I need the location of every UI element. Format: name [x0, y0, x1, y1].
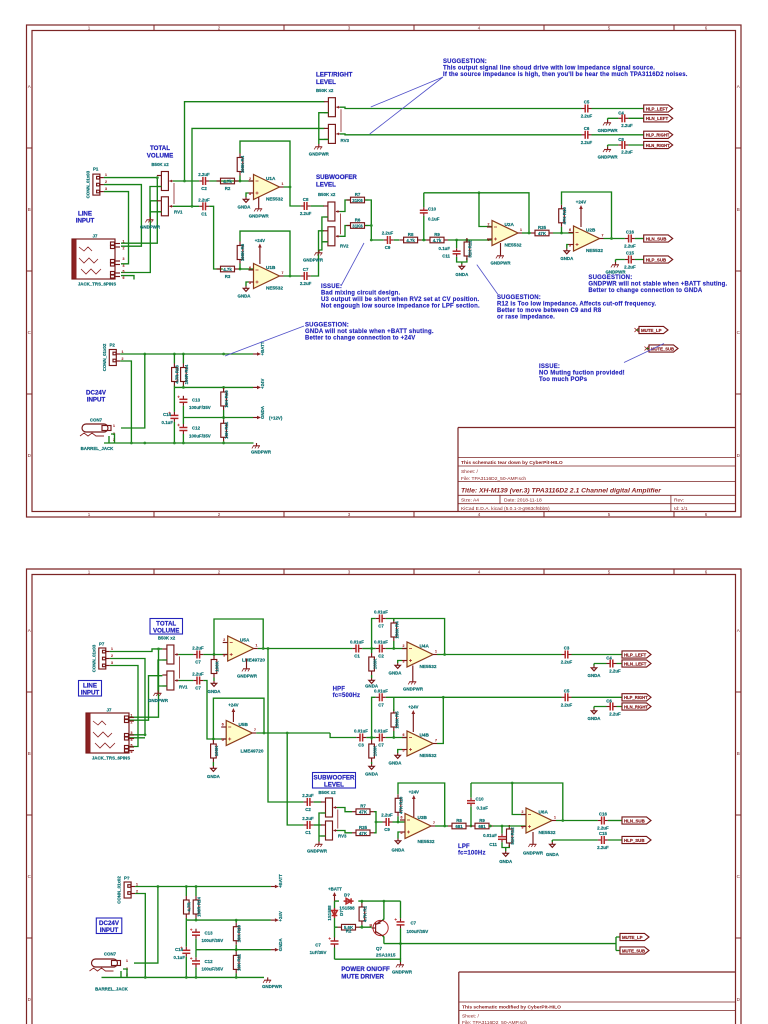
svg-text:2SA1015: 2SA1015	[376, 953, 396, 958]
svg-text:0.01uF: 0.01uF	[354, 729, 368, 734]
svg-text:RV3: RV3	[341, 138, 350, 143]
svg-text:SUGGESTION:: SUGGESTION:	[443, 59, 487, 65]
svg-text:2.2uF: 2.2uF	[621, 150, 633, 155]
capacitor C1h	[352, 645, 362, 653]
svg-text:2.2uF: 2.2uF	[581, 140, 593, 145]
capacitor C11 shunt	[457, 240, 467, 262]
svg-text:10K R10: 10K R10	[224, 390, 229, 408]
capacitor C9s	[383, 818, 393, 826]
sheet2 inner border frame	[32, 575, 736, 1024]
capacitor C8b	[618, 141, 628, 149]
U1B feedback loop wire	[240, 231, 290, 276]
hierarchical label MUTE_LP	[620, 933, 649, 940]
svg-text:LEFT/RIGHT: LEFT/RIGHT	[316, 72, 353, 79]
op-amp U4B	[402, 731, 437, 756]
svg-text:5.6K: 5.6K	[344, 925, 354, 930]
wire P1.3 down	[104, 192, 129, 264]
wire RV3 gang2 wiper to R35	[337, 831, 352, 833]
svg-text:1S1588: 1S1588	[339, 906, 355, 911]
wire jack tip up to P1.1 net	[121, 178, 157, 244]
svg-text:100R R14: 100R R14	[197, 897, 202, 917]
svg-text:GNDA will not stable when +BA: GNDA will not stable when +BATT shuting.	[305, 329, 434, 335]
svg-text:3: 3	[105, 187, 107, 191]
svg-text:Not engough low source impedan: Not engough low source impedance for LPF…	[321, 304, 480, 310]
svg-text:150K R4: 150K R4	[395, 621, 400, 639]
resistor R7	[347, 197, 369, 203]
svg-text:47K R10: 47K R10	[562, 207, 567, 225]
shunt row C4	[594, 664, 622, 666]
potentiometer RV3 gang1	[321, 798, 337, 817]
CON7b ground pins	[121, 969, 127, 977]
svg-text:2.2uF: 2.2uF	[561, 660, 573, 665]
svg-text:2.2uF: 2.2uF	[382, 231, 394, 236]
svg-text:A: A	[28, 84, 31, 89]
svg-text:LME49720: LME49720	[242, 658, 265, 663]
svg-text:RV1: RV1	[174, 210, 183, 215]
capacitor C3r feedback	[376, 693, 386, 701]
svg-text:5: 5	[131, 743, 133, 747]
svg-text:2.2uF: 2.2uF	[198, 197, 210, 202]
svg-text:P7: P7	[99, 642, 105, 647]
svg-text:47K: 47K	[359, 810, 368, 815]
svg-text:Id: 1/1: Id: 1/1	[674, 506, 688, 512]
annotation pointer	[225, 326, 304, 356]
annotation pointer lines	[370, 77, 443, 134]
svg-text:47K R10: 47K R10	[399, 796, 404, 814]
svg-text:C7: C7	[315, 943, 321, 948]
svg-text:R7: R7	[360, 804, 366, 809]
svg-text:681: 681	[478, 824, 486, 829]
wire P1.1 to RV1 gang1	[104, 177, 157, 179]
svg-text:C13: C13	[205, 930, 214, 935]
svg-text:TOTAL: TOTAL	[156, 621, 176, 628]
svg-text:C7: C7	[195, 686, 201, 691]
U1B output wire	[284, 275, 301, 277]
svg-text:P2: P2	[110, 343, 116, 348]
svg-text:GNDA: GNDA	[278, 937, 283, 951]
resistor R1r shunt	[369, 740, 375, 762]
wire RV1 gang2 input from jack	[121, 201, 157, 273]
svg-text:NE5532: NE5532	[266, 197, 283, 202]
svg-text:0.01uF: 0.01uF	[374, 729, 388, 734]
op-amp U2A	[487, 221, 522, 246]
wire rail to U2A inverting input	[479, 193, 492, 227]
U3B output wire	[435, 825, 448, 827]
svg-text:SUGGESTION:: SUGGESTION:	[305, 323, 349, 329]
potentiometer RV1 gang1	[157, 172, 173, 191]
svg-text:C14: C14	[163, 412, 172, 417]
svg-text:4.7k: 4.7k	[433, 238, 442, 243]
svg-text:HLP_LEFT: HLP_LEFT	[624, 652, 647, 657]
svg-text:4.7k: 4.7k	[223, 179, 232, 184]
wire CON7 pin1 up to +BATT	[134, 887, 158, 964]
op-amp U4A	[402, 642, 437, 667]
capacitor C8	[301, 202, 311, 210]
svg-text:2.2uF: 2.2uF	[192, 646, 204, 651]
GNDA rail wire	[196, 949, 271, 951]
svg-text:KiCad E.D.A. kicad (5.0.1-3-g: KiCad E.D.A. kicad (5.0.1-3-g963cf6bb5)	[461, 506, 550, 512]
annotation pointer	[341, 243, 364, 286]
svg-text:GNDA: GNDA	[392, 848, 406, 853]
svg-text:47K: 47K	[359, 831, 368, 836]
shunt row C4	[608, 118, 644, 120]
svg-text:INPUT: INPUT	[81, 690, 100, 697]
svg-text:This output signal line shoud: This output signal line shoud drive with…	[443, 66, 655, 72]
svg-text:0.1uF: 0.1uF	[428, 217, 440, 222]
resistor R1m	[359, 903, 365, 925]
wire RV2 gang2 wiper to R6	[339, 226, 350, 237]
svg-text:GNDA: GNDA	[365, 772, 379, 777]
U5A output long wire to HPF	[258, 648, 353, 650]
svg-text:GNDPWR will not stable when +: GNDPWR will not stable when +BATT shutin…	[588, 282, 727, 288]
svg-text:0.1uF: 0.1uF	[162, 420, 174, 425]
svg-text:Title: XH-M139 (ver.3) TPA3116: Title: XH-M139 (ver.3) TPA3116D2 2.1 Cha…	[461, 488, 661, 495]
capacitor C1r	[356, 734, 366, 742]
svg-text:MUTE DRIVER: MUTE DRIVER	[341, 974, 384, 981]
sheet1 outer border frame	[27, 25, 742, 517]
svg-text:2.2uF: 2.2uF	[192, 672, 204, 677]
svg-text:4: 4	[123, 264, 125, 268]
svg-text:Too much POPs: Too much POPs	[539, 377, 588, 383]
sheet2 border row letters	[28, 628, 741, 1002]
ground GNDPWR under RV1	[145, 217, 153, 222]
svg-text:6: 6	[403, 733, 405, 737]
capacitor C7m 100uF	[400, 901, 402, 959]
GNDPWR rail wire	[104, 442, 254, 444]
U2B output wire	[604, 238, 625, 240]
hierarchical label HLN_LEFT	[644, 115, 673, 122]
ground GNDPWR under C4	[603, 120, 611, 125]
ground GNDPWR under C8b	[603, 147, 611, 152]
svg-text:2.2uF: 2.2uF	[300, 211, 312, 216]
svg-text:2: 2	[123, 247, 125, 251]
svg-text:This schematic modified by Cyb: This schematic modified by CyberPit-HILO	[462, 1005, 561, 1011]
svg-text:SUGGESTION:: SUGGESTION:	[588, 275, 632, 281]
power flag +24V	[253, 386, 261, 390]
svg-text:Bad mixing circuit design.: Bad mixing circuit design.	[321, 291, 401, 297]
power flag +BATT	[253, 352, 261, 356]
U4A feedback rail	[372, 619, 445, 655]
transistor Q7 2SA1015	[373, 920, 388, 935]
RV3 gang link	[337, 810, 339, 829]
RV1 ground wire	[150, 187, 161, 218]
svg-text:C11: C11	[489, 842, 497, 847]
resistor R10b divider	[233, 923, 239, 945]
bottom wire to GNDPWR	[335, 959, 401, 962]
svg-text:0.01uF: 0.01uF	[374, 640, 388, 645]
svg-text:U2A: U2A	[505, 222, 515, 227]
capacitor C13	[177, 396, 187, 406]
svg-text:SUBWOOFER: SUBWOOFER	[316, 174, 357, 181]
svg-text:2: 2	[111, 654, 113, 658]
hierarchical label HLN_LEFT	[622, 660, 651, 667]
svg-text:4.7k: 4.7k	[223, 267, 232, 272]
hierarchical label HLP_RIGHT	[644, 131, 673, 138]
svg-text:LINE: LINE	[78, 211, 92, 218]
ground GNDPWR rail end	[252, 443, 260, 448]
U2A power pin to GNDPWR	[500, 243, 502, 253]
capacitor C12b	[190, 957, 200, 967]
svg-text:C8: C8	[618, 137, 624, 142]
svg-text:5: 5	[569, 244, 571, 248]
svg-text:0.01uF: 0.01uF	[483, 833, 497, 838]
svg-text:R35: R35	[538, 225, 547, 230]
U5B output long wire	[256, 733, 330, 825]
wire RV1 gang2 wiper to C7b	[178, 681, 226, 740]
svg-text:2.2uF: 2.2uF	[381, 813, 393, 818]
svg-text:0.1uF: 0.1uF	[174, 955, 186, 960]
svg-text:2.2uF: 2.2uF	[621, 123, 633, 128]
ground GNDPWR under RV3	[314, 842, 322, 847]
svg-text:R12 is Too low impedance. Affe: R12 is Too low impedance. Affects cut-of…	[497, 302, 656, 308]
potentiometer RV1 gang1	[162, 645, 178, 664]
svg-text:4: 4	[131, 738, 133, 742]
svg-text:File: TPA3116D2_50-AMP.sch: File: TPA3116D2_50-AMP.sch	[461, 476, 526, 482]
svg-text:LEVEL: LEVEL	[316, 79, 336, 86]
svg-text:R6: R6	[355, 218, 361, 223]
svg-text:3: 3	[223, 654, 225, 658]
svg-text:HLP_RIGHT: HLP_RIGHT	[624, 695, 648, 700]
capacitor C7a	[193, 651, 203, 659]
svg-text:C12: C12	[192, 426, 201, 431]
svg-text:MUTE_LP: MUTE_LP	[641, 328, 662, 333]
wire P1.2 down	[104, 185, 141, 247]
sheet1 border column numbers	[88, 26, 708, 518]
resistor R9s	[471, 823, 493, 829]
power flag GNDA	[271, 948, 279, 952]
sheet1 border ticks top/bottom	[154, 25, 674, 517]
svg-text:U3 output will be short when R: U3 output will be short when RV2 set at …	[321, 297, 479, 303]
svg-text:R3: R3	[225, 274, 231, 279]
svg-text:3: 3	[111, 661, 113, 665]
label LINE INPUT boxed	[79, 681, 102, 697]
svg-text:10K R10: 10K R10	[237, 924, 242, 942]
svg-text:+24V: +24V	[278, 911, 283, 921]
svg-text:4.7R: 4.7R	[187, 902, 192, 912]
capacitor C11s shunt	[502, 826, 509, 848]
op-amp U1A	[249, 175, 284, 200]
svg-text:2.2uF: 2.2uF	[609, 669, 621, 674]
capacitor C10 feedback	[423, 193, 425, 240]
capacitor C13b	[190, 929, 200, 939]
svg-text:B: B	[28, 207, 31, 212]
svg-text:GNDA: GNDA	[499, 859, 513, 864]
svg-text:2.2uF: 2.2uF	[302, 793, 314, 798]
svg-text:Rev:: Rev:	[674, 498, 684, 504]
svg-text:+24V: +24V	[255, 238, 265, 243]
svg-text:6: 6	[123, 276, 125, 280]
resistor R13	[172, 364, 178, 386]
svg-text:U3B: U3B	[418, 815, 428, 820]
svg-text:HLN_LEFT: HLN_LEFT	[624, 661, 647, 666]
svg-text:R8: R8	[408, 232, 414, 237]
svg-text:C14: C14	[175, 947, 184, 952]
capacitor C6	[607, 703, 617, 711]
svg-text:51K R12: 51K R12	[468, 240, 473, 258]
ground GNDA under C4	[591, 666, 597, 671]
resistor R3	[217, 266, 239, 272]
svg-text:C7: C7	[378, 702, 384, 707]
svg-text:R9: R9	[434, 232, 440, 237]
+24V rail wire	[174, 386, 253, 388]
capacitor C14	[168, 412, 178, 422]
svg-text:6: 6	[222, 723, 224, 727]
svg-text:GNDPWR: GNDPWR	[598, 155, 619, 160]
GNDA (+12V) rail wire	[183, 417, 253, 419]
svg-text:C7: C7	[411, 921, 417, 926]
+BATT rail wire	[120, 353, 253, 355]
U1A output wire down to C8	[284, 187, 301, 206]
svg-text:1: 1	[111, 647, 113, 651]
svg-text:1: 1	[122, 350, 124, 354]
svg-text:Date: 2018-11-18: Date: 2018-11-18	[504, 498, 542, 504]
capacitor C4	[618, 114, 628, 122]
mute output long wire	[384, 937, 620, 951]
svg-text:6: 6	[249, 266, 251, 270]
ground GNDA under R3b	[211, 766, 217, 771]
ground GNDA under R1h	[369, 678, 375, 683]
ground GNDA under C6	[591, 709, 597, 714]
op-amp U3B	[400, 814, 435, 839]
svg-text:100K: 100K	[372, 658, 377, 669]
svg-text:GNDPWR: GNDPWR	[403, 687, 424, 692]
no-connect x MUTE_SUB	[645, 347, 649, 351]
wire rail to U6A inverting input	[512, 783, 526, 815]
svg-text:GNDA: GNDA	[238, 294, 252, 299]
power flag +BATT	[271, 885, 279, 889]
svg-text:MUTE_SUB: MUTE_SUB	[622, 948, 645, 953]
wire P2b.2 to ground rail	[135, 894, 145, 978]
resistor R8s	[448, 823, 470, 829]
svg-text:A: A	[737, 628, 740, 633]
capacitor C16s	[598, 817, 608, 825]
svg-text:4.7R R13: 4.7R R13	[175, 365, 180, 384]
resistor R4 feedback U1A	[237, 154, 243, 176]
svg-text:Better to move between C9 and: Better to move between C9 and R8	[497, 308, 602, 314]
svg-text:U4B: U4B	[420, 733, 430, 738]
svg-text:GNDPWR: GNDPWR	[598, 128, 619, 133]
svg-text:D?: D?	[344, 893, 350, 898]
svg-text:CON7: CON7	[90, 418, 103, 423]
power flag GNDA	[253, 416, 261, 420]
capacitor C2s	[304, 798, 314, 806]
capacitor C3h feedback	[376, 615, 386, 623]
U4B feedback rail	[372, 697, 562, 737]
svg-text:C1: C1	[305, 830, 311, 835]
svg-text:BARREL_JACK: BARREL_JACK	[81, 446, 115, 451]
svg-text:R2: R2	[225, 186, 231, 191]
svg-text:B50K x2: B50K x2	[316, 88, 334, 93]
svg-text:U1B: U1B	[266, 265, 276, 270]
capacitor C15s	[598, 836, 608, 844]
svg-text:+BATT: +BATT	[278, 874, 283, 888]
RV2 ground wires	[319, 217, 328, 250]
svg-text:RV1: RV1	[179, 685, 188, 690]
U4A + input to GNDA	[398, 661, 402, 664]
svg-text:POWER ON/OFF: POWER ON/OFF	[341, 966, 390, 973]
svg-text:GNDA: GNDA	[260, 405, 265, 419]
U2A output wire	[522, 232, 531, 234]
shunt row C15	[616, 260, 644, 263]
svg-text:7: 7	[435, 739, 437, 743]
hierarchical label HLP_RIGHT	[622, 694, 651, 701]
svg-text:C8: C8	[303, 197, 309, 202]
svg-text:ISSUE:: ISSUE:	[539, 364, 560, 370]
svg-text:100uF/35V: 100uF/35V	[407, 929, 429, 934]
wire row2 RV1 gang2 wiper to C1 and down	[173, 206, 223, 269]
U5A power pin to GNDPWR	[246, 659, 248, 667]
resistor R35s	[352, 830, 374, 836]
U2A feedback rail	[424, 193, 529, 233]
svg-text:+24V: +24V	[228, 703, 238, 708]
diode D7 vertical	[332, 908, 338, 918]
svg-text:HLN_SUB: HLN_SUB	[624, 818, 645, 823]
capacitor C2r	[376, 734, 386, 742]
svg-text:5: 5	[401, 831, 403, 835]
svg-text:R7: R7	[355, 192, 361, 197]
svg-text:HLP_RIGHT: HLP_RIGHT	[646, 133, 670, 138]
svg-text:GNDA: GNDA	[455, 272, 469, 277]
capacitor C16	[625, 235, 635, 243]
svg-text:HLN_SUB: HLN_SUB	[646, 236, 667, 241]
ground GNDPWR under C15	[611, 262, 619, 267]
svg-text:B: B	[28, 751, 31, 756]
svg-text:C5: C5	[584, 100, 590, 105]
annotation SUGGESTION GNDA	[305, 323, 434, 342]
svg-text:MUTE_SUB: MUTE_SUB	[651, 346, 674, 351]
svg-text:J7: J7	[93, 234, 98, 239]
svg-text:Sheet: /: Sheet: /	[462, 1014, 479, 1020]
RV3 gang link	[340, 109, 342, 132]
svg-text:NE5532: NE5532	[420, 664, 437, 669]
svg-text:2.2uF: 2.2uF	[198, 172, 210, 177]
RV1 gang link	[179, 657, 181, 679]
wire C7 to RV2 gang2	[311, 231, 324, 276]
svg-text:2: 2	[136, 889, 138, 893]
svg-text:2.2uF: 2.2uF	[624, 265, 636, 270]
svg-text:1: 1	[126, 959, 128, 963]
wire RV3 gang2 wiper long to C6	[340, 133, 582, 136]
svg-text:U2B: U2B	[586, 228, 596, 233]
RV3 ground wires	[319, 113, 329, 144]
potentiometer RV2 gang1	[323, 202, 339, 221]
hierarchical label MUTE_SUB	[620, 947, 649, 954]
wire RV3 gang1 wiper to R7	[337, 808, 352, 812]
svg-text:2.2uF: 2.2uF	[581, 114, 593, 119]
svg-text:Better to change connection to: Better to change connection to +24V	[305, 336, 416, 342]
svg-text:GNDA: GNDA	[560, 256, 574, 261]
wires to left/right level pots	[185, 102, 325, 181]
svg-text:GNDPWR: GNDPWR	[392, 970, 413, 975]
svg-text:0.1uF: 0.1uF	[439, 246, 451, 251]
svg-text:+24V: +24V	[409, 790, 419, 795]
ground GNDA under C11s	[505, 848, 507, 852]
svg-text:C5: C5	[564, 688, 570, 693]
resistor R7s	[352, 809, 374, 815]
capacitor C14b	[180, 947, 190, 957]
svg-text:3: 3	[522, 826, 524, 830]
GNDPWR rail wire	[102, 976, 265, 978]
op-amp U2B	[569, 226, 604, 251]
capacitor C7b	[193, 677, 203, 685]
svg-text:HPF: HPF	[333, 687, 346, 693]
svg-text:CONN_01x02: CONN_01x02	[117, 876, 122, 904]
svg-text:C4: C4	[606, 656, 612, 661]
svg-text:2.2uF: 2.2uF	[609, 712, 621, 717]
wire U5A out down to subwoofer	[268, 649, 304, 803]
U1A power pin to GNDPWR	[258, 197, 260, 206]
shunt row C15s	[552, 840, 622, 842]
